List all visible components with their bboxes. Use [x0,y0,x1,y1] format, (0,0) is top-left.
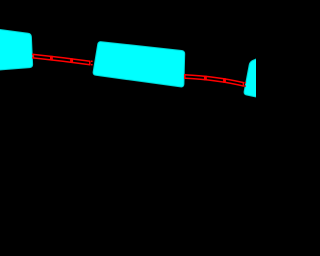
wire A-B end tick [89,61,91,66]
wire A-B junction tick [50,56,52,61]
wire B-C nub top [245,82,246,84]
wire B-C bottom rail [184,78,244,86]
wire B-C [184,74,246,87]
wire B-C start tick [184,74,186,79]
wire A-B start tick [32,54,34,59]
wire A-B junction tick [70,58,72,63]
wire A-B junction tick [51,56,53,61]
wire A-B junction tick [71,58,73,63]
wire A-B bottom rail [32,58,90,65]
wire B-C junction tick [204,76,206,81]
wire B-C junction tick [205,76,207,81]
node A [0,27,33,72]
wire B-C top rail [184,75,244,83]
wire A-B nub bottom [91,64,93,66]
wire B-C nub bottom [245,85,246,87]
node C [244,53,274,100]
wire A-B nub top [91,60,93,62]
wire B-C junction tick [223,78,225,83]
wire A-B top rail [32,54,90,61]
wire B-C end tick [242,82,244,87]
node B [93,42,185,87]
wire B-C junction tick [224,78,226,83]
wire A-B [32,54,93,66]
